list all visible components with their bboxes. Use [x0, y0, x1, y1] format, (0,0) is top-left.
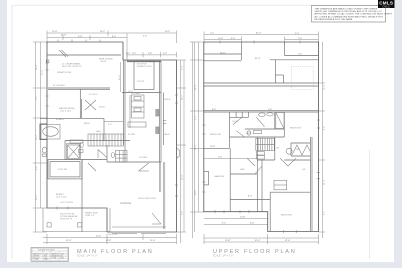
- svg-text:WIC: WIC: [296, 149, 301, 151]
- svg-text:10'-0": 10'-0": [218, 38, 224, 40]
- svg-text:41'-4": 41'-4": [255, 240, 261, 242]
- svg-text:LAUN: LAUN: [164, 133, 170, 136]
- svg-text:8'-6": 8'-6": [324, 126, 326, 130]
- svg-text:M BATH: M BATH: [56, 118, 64, 121]
- svg-text:5'-2": 5'-2": [143, 36, 147, 38]
- svg-text:12'-6": 12'-6": [195, 144, 197, 150]
- svg-text:14' CEILING: 14' CEILING: [53, 85, 65, 87]
- svg-text:6'-4": 6'-4": [231, 38, 235, 40]
- svg-text:ALL CODES ALL DIMENSIONS SIZES: ALL CODES ALL DIMENSIONS SIZES AND FIELD…: [315, 15, 384, 18]
- svg-text:VERIFY ALL DRAWINGS IS PROVIDE: VERIFY ALL DRAWINGS IS PROVIDED AND FITS…: [315, 10, 383, 13]
- svg-text:KITCHEN: KITCHEN: [131, 93, 141, 95]
- svg-text:14'-6": 14'-6": [36, 134, 38, 140]
- svg-text:ELEC FPL SCRN TV: ELEC FPL SCRN TV: [62, 66, 82, 68]
- svg-text:12'-0": 12'-0": [285, 240, 291, 242]
- svg-text:FOYER: FOYER: [128, 134, 136, 136]
- svg-text:20'-2": 20'-2": [96, 236, 102, 238]
- svg-text:DECK: DECK: [99, 107, 105, 109]
- svg-text:15'-8": 15'-8": [240, 217, 246, 219]
- svg-text:6'-6": 6'-6": [250, 223, 254, 225]
- svg-text:10'-2": 10'-2": [195, 189, 197, 195]
- svg-text:11'-2": 11'-2": [182, 95, 184, 100]
- svg-text:GREAT ROOM: GREAT ROOM: [57, 71, 71, 74]
- svg-text:4'-0": 4'-0": [108, 124, 112, 126]
- svg-text:9'-4": 9'-4": [195, 116, 197, 120]
- svg-text:BEDROOM: BEDROOM: [281, 215, 292, 217]
- svg-text:41'-4": 41'-4": [256, 33, 262, 35]
- svg-text:APPROVED PERMIT LOCAL CODES. T: APPROVED PERMIT LOCAL CODES. THE CONTRAC…: [315, 13, 393, 16]
- svg-text:LIN: LIN: [302, 169, 306, 171]
- svg-text:GAME RM: GAME RM: [214, 175, 224, 178]
- svg-text:PORCH TYP: PORCH TYP: [60, 219, 73, 221]
- svg-text:28'-0": 28'-0": [36, 64, 38, 70]
- svg-text:12'-4": 12'-4": [52, 31, 58, 33]
- svg-text:THE DRAWINGS ARE MADE CONDY IN: THE DRAWINGS ARE MADE CONDY INTENT THE O…: [315, 7, 378, 10]
- svg-text:14'-0": 14'-0": [195, 84, 197, 90]
- svg-text:7'-2": 7'-2": [210, 33, 214, 35]
- svg-text:2606: 2606: [60, 257, 64, 259]
- svg-text:CLOS: CLOS: [232, 121, 238, 123]
- svg-text:BATH: BATH: [84, 122, 90, 125]
- svg-text:16070 OHD DOOR: 16070 OHD DOOR: [138, 198, 156, 200]
- svg-text:7'-2": 7'-2": [42, 151, 44, 155]
- svg-text:5'-2": 5'-2": [163, 53, 167, 55]
- svg-text:9'-2": 9'-2": [324, 211, 326, 215]
- svg-text:8'-0": 8'-0": [212, 109, 216, 111]
- svg-text:21'-6": 21'-6": [119, 74, 121, 80]
- svg-text:7'-6": 7'-6": [298, 38, 302, 40]
- svg-text:5'-6": 5'-6": [268, 109, 272, 111]
- svg-text:CEDAR POSTS: CEDAR POSTS: [137, 65, 153, 68]
- svg-text:9'-0 CLG: 9'-0 CLG: [89, 94, 98, 96]
- svg-text:9'-6": 9'-6": [182, 211, 184, 215]
- svg-text:PWDR: PWDR: [164, 99, 171, 101]
- svg-text:11-0 X 12-0: 11-0 X 12-0: [56, 197, 68, 199]
- svg-text:5'-2": 5'-2": [132, 53, 136, 55]
- svg-text:STOOP: STOOP: [137, 81, 145, 83]
- svg-text:BE RESPONSIBLE FOR THE SAME: BE RESPONSIBLE FOR THE SAME: [315, 18, 353, 21]
- svg-text:TOTAL: TOTAL: [33, 258, 39, 261]
- svg-text:11'-6": 11'-6": [210, 146, 215, 148]
- svg-text:CMLS: CMLS: [379, 1, 393, 6]
- svg-text:4'-2": 4'-2": [126, 53, 130, 55]
- svg-text:9'-2": 9'-2": [36, 96, 38, 100]
- svg-text:14'-0": 14'-0": [324, 84, 326, 90]
- svg-text:9'-0": 9'-0": [295, 33, 299, 35]
- svg-text:2606: 2606: [44, 259, 48, 261]
- svg-text:16'-1": 16'-1": [100, 31, 106, 33]
- svg-text:12'-4": 12'-4": [36, 194, 38, 200]
- svg-text:TRIM TYP: TRIM TYP: [85, 215, 95, 217]
- svg-text:BATH: BATH: [246, 132, 252, 135]
- svg-text:12'-4": 12'-4": [66, 240, 72, 242]
- svg-text:42'-0": 42'-0": [106, 240, 112, 242]
- svg-text:5'-0": 5'-0": [182, 66, 184, 70]
- svg-text:7'-6": 7'-6": [298, 54, 302, 56]
- svg-text:10'-2": 10'-2": [128, 91, 134, 93]
- svg-text:CMLS: CMLS: [382, 7, 390, 9]
- svg-text:BEDROOM: BEDROOM: [290, 127, 301, 129]
- svg-text:UPPER FLOOR PLAN: UPPER FLOOR PLAN: [213, 249, 296, 255]
- svg-text:13-0 X 14-0: 13-0 X 14-0: [60, 111, 72, 113]
- svg-text:TOTAL: TOTAL: [51, 256, 57, 259]
- svg-text:41'-4": 41'-4": [255, 58, 261, 60]
- svg-text:SQUARE FOOTAGE: SQUARE FOOTAGE: [38, 248, 56, 251]
- svg-text:9'-8": 9'-8": [78, 36, 82, 38]
- svg-text:21'-0": 21'-0": [150, 240, 156, 242]
- svg-text:5'-8": 5'-8": [148, 53, 152, 55]
- svg-text:10'-1": 10'-1": [165, 31, 171, 33]
- svg-text:WC: WC: [78, 154, 82, 156]
- svg-text:SCALE : 1/4" = 1'-0": SCALE : 1/4" = 1'-0": [213, 255, 234, 258]
- svg-text:13'-6": 13'-6": [42, 69, 44, 75]
- svg-text:FLEX RM: FLEX RM: [58, 169, 67, 171]
- svg-text:15'-8": 15'-8": [225, 240, 231, 242]
- svg-text:GARAGE: GARAGE: [120, 201, 131, 205]
- svg-text:6'-5": 6'-5": [112, 36, 116, 38]
- svg-text:8'-2": 8'-2": [248, 196, 252, 198]
- svg-text:16070 OHD: 16070 OHD: [108, 234, 118, 236]
- svg-text:9'-2": 9'-2": [222, 223, 226, 225]
- svg-text:MAIN FLOOR PLAN: MAIN FLOOR PLAN: [77, 249, 153, 255]
- svg-text:COV. PORCH: COV. PORCH: [60, 202, 73, 204]
- svg-text:14'-6": 14'-6": [220, 52, 226, 54]
- svg-text:21'-0": 21'-0": [324, 179, 326, 185]
- svg-text:HALL: HALL: [96, 130, 102, 133]
- svg-text:10X13: 10X13: [100, 61, 107, 63]
- svg-text:BEDROOM: BEDROOM: [210, 134, 221, 136]
- svg-text:SCALE : 1/4" = 1'-0": SCALE : 1/4" = 1'-0": [77, 255, 98, 258]
- svg-text:HALL: HALL: [240, 168, 246, 171]
- svg-text:DN: DN: [276, 148, 280, 150]
- svg-text:8'-0": 8'-0": [36, 166, 38, 170]
- svg-text:5'-2": 5'-2": [218, 157, 222, 159]
- svg-text:42'-0": 42'-0": [61, 35, 67, 37]
- svg-text:24'-0": 24'-0": [182, 174, 184, 180]
- svg-text:CLOSET: CLOSET: [139, 157, 148, 159]
